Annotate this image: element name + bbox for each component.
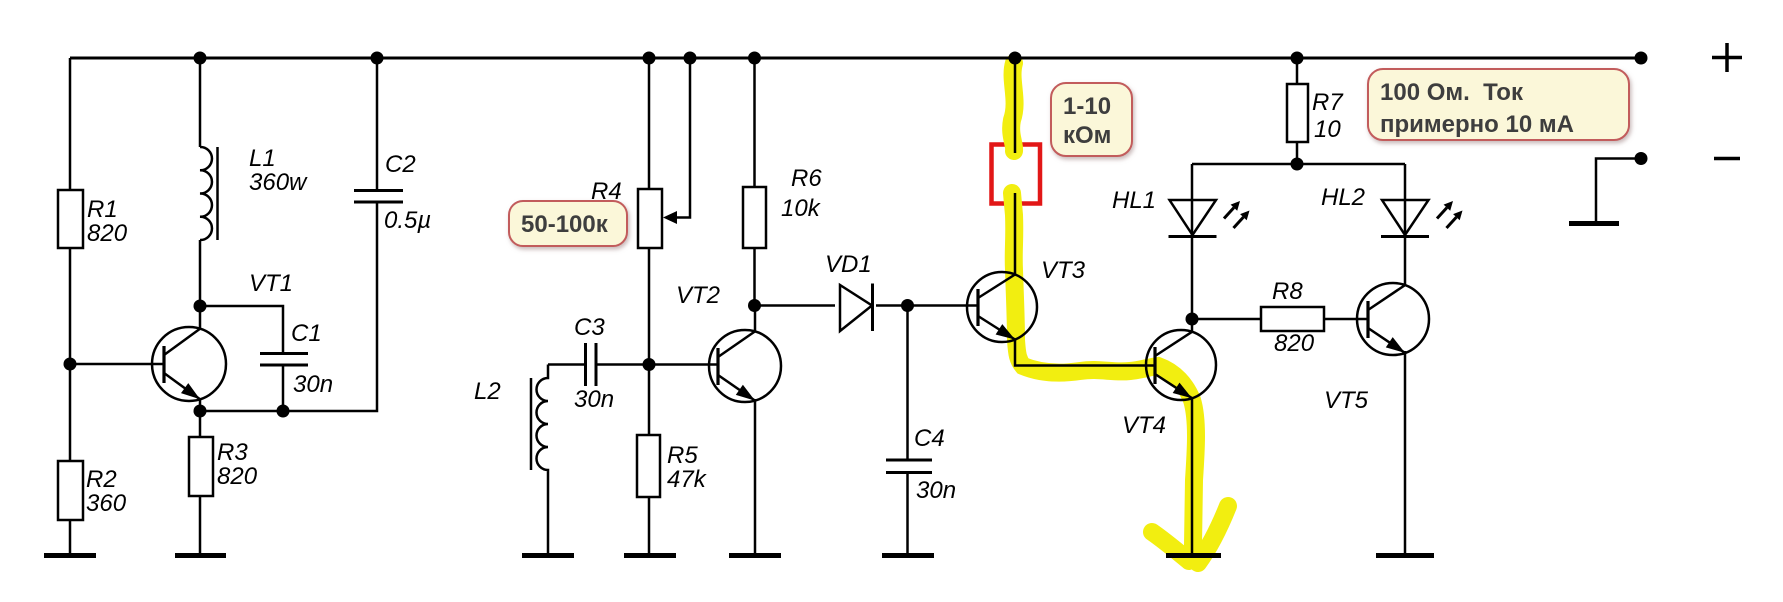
ground under VT4 xyxy=(1166,553,1221,558)
label R2 360 xyxy=(86,466,127,517)
label C3 30n xyxy=(574,314,614,413)
transistor VT3 xyxy=(967,272,1037,342)
node rail VT3 xyxy=(1009,52,1022,65)
label HL1 xyxy=(1112,187,1156,214)
yellow highlighter stroke from red box through VT3 and VT4 to ground arrow xyxy=(1012,193,1228,563)
node base VT1 xyxy=(64,358,77,371)
LED HL1 xyxy=(1169,200,1217,237)
wire HL1 branch xyxy=(1191,164,1194,332)
yellow highlighter stroke from top rail to red box xyxy=(1011,63,1014,151)
callout tag 1-10 kOm xyxy=(1051,83,1132,156)
resistor R2 xyxy=(58,461,83,520)
HL2 light arrows xyxy=(1437,201,1463,228)
wire left branch R1-R2 vertical xyxy=(69,58,72,553)
wire VT3 collector below red box xyxy=(1014,193,1017,275)
capacitor C3 xyxy=(586,343,597,386)
ground under L2 xyxy=(522,553,574,558)
arrowhead R4 wiper xyxy=(663,211,677,224)
svg-text:VD1: VD1 xyxy=(825,251,872,278)
wire C2 bottom to emitter line xyxy=(200,204,377,412)
node R4 bottom junction xyxy=(643,358,656,371)
svg-text:30n: 30n xyxy=(574,386,614,413)
HL1 light arrows xyxy=(1224,201,1250,228)
node VT1 emitter xyxy=(194,405,207,418)
ground negative terminal xyxy=(1569,221,1619,226)
node rail L1 xyxy=(194,52,207,65)
node rail C2 xyxy=(371,52,384,65)
svg-text:10k: 10k xyxy=(781,195,822,222)
wire VD1 cathode to VT3 base xyxy=(876,304,978,307)
label VD1 xyxy=(825,251,872,278)
ground under VT2 xyxy=(729,553,781,558)
label VT4 xyxy=(1122,412,1166,439)
resistor R7 xyxy=(1287,58,1308,164)
wire VT1 emitter to R3 xyxy=(199,399,202,553)
node VT4 collector xyxy=(1186,313,1199,326)
transistor VT2 xyxy=(709,330,781,402)
node rail R6 xyxy=(748,52,761,65)
label L1 360w xyxy=(249,145,308,196)
svg-text:C1: C1 xyxy=(291,320,322,347)
svg-text:C3: C3 xyxy=(574,314,605,341)
plus sign xyxy=(1712,43,1742,72)
label R1 820 xyxy=(87,196,128,247)
inductor L2 xyxy=(531,365,548,554)
transistor VT4 xyxy=(1146,330,1216,400)
callout tag 50-100k xyxy=(509,201,627,246)
node negative terminal xyxy=(1635,152,1648,165)
svg-text:R8: R8 xyxy=(1272,278,1303,305)
wire VD1 anode xyxy=(755,304,836,307)
resistor R3 xyxy=(189,437,213,496)
node rail R4 xyxy=(643,52,656,65)
wire negative terminal to ground xyxy=(1596,159,1641,222)
svg-text:VT2: VT2 xyxy=(676,282,720,309)
transistor VT1 xyxy=(152,327,226,401)
wire VT3 emitter to VT4 base xyxy=(1015,340,1155,366)
ground under C4 xyxy=(882,553,934,558)
resistor R5 xyxy=(637,435,660,497)
resistor R1 xyxy=(58,190,83,248)
wire L1 branch vertical xyxy=(199,58,202,147)
svg-text:HL2: HL2 xyxy=(1321,184,1365,211)
wire top positive rail xyxy=(70,57,1641,60)
label VT2 xyxy=(676,282,720,309)
node R7 bottom xyxy=(1291,158,1304,171)
label R8 820 xyxy=(1272,278,1315,357)
ground under R3 xyxy=(175,553,226,558)
svg-text:C4: C4 xyxy=(914,425,945,452)
svg-text:L2: L2 xyxy=(474,378,501,405)
node positive terminal xyxy=(1635,52,1648,65)
label VT3 xyxy=(1041,257,1086,284)
wire R4-R5 branch vertical xyxy=(648,58,651,553)
label R5 47k xyxy=(667,442,708,493)
capacitor C4 xyxy=(886,306,932,554)
wire VT2 collector xyxy=(754,306,757,332)
svg-text:VT5: VT5 xyxy=(1324,387,1369,414)
wire R6 branch vertical xyxy=(753,58,756,306)
ground under VT5 xyxy=(1376,553,1434,558)
callout tag 100 Om current note xyxy=(1368,69,1629,140)
node VT2 collector junction xyxy=(748,299,761,312)
label HL2 xyxy=(1321,184,1365,211)
svg-text:50-100к: 50-100к xyxy=(521,211,609,238)
svg-text:820: 820 xyxy=(1274,330,1315,357)
ground under R2 xyxy=(44,553,96,558)
node C4 junction xyxy=(901,299,914,312)
svg-text:30n: 30n xyxy=(916,477,956,504)
label C2 0.5u xyxy=(384,151,431,234)
svg-text:VT1: VT1 xyxy=(249,270,293,297)
resistor R6 xyxy=(743,187,766,248)
wire VT5 emitter to ground xyxy=(1404,351,1407,553)
wire VT2 emitter to ground xyxy=(754,399,757,553)
wire LED feed line xyxy=(1192,163,1405,166)
diode VD1 xyxy=(840,284,873,332)
wire C3 to VT2 base xyxy=(598,363,719,366)
node rail R7 xyxy=(1291,52,1304,65)
label VT5 xyxy=(1324,387,1369,414)
label L2 xyxy=(474,378,501,405)
wire VT4 emitter to ground xyxy=(1191,397,1194,553)
wire L1 to VT1 collector xyxy=(199,240,202,330)
svg-text:R710: R710 xyxy=(1312,89,1344,143)
wire VT3 collector vertical xyxy=(1014,58,1017,153)
ground under R5 xyxy=(624,553,676,558)
label C1 30n xyxy=(291,320,333,398)
node rail wiper xyxy=(684,52,697,65)
svg-text:VT4: VT4 xyxy=(1122,412,1166,439)
capacitor C1 xyxy=(260,354,308,412)
svg-text:HL1: HL1 xyxy=(1112,187,1156,214)
label VT1 xyxy=(249,270,293,297)
node C1 bottom xyxy=(277,405,290,418)
red placeholder box (white fill) xyxy=(992,145,1041,204)
label C4 30n xyxy=(914,425,956,504)
svg-text:R6: R6 xyxy=(791,165,822,192)
wire VT1 base xyxy=(70,363,164,366)
transistor VT5 xyxy=(1357,283,1429,355)
capacitor C2 xyxy=(354,58,403,202)
wire L2 to C3 xyxy=(548,363,584,366)
svg-text:VT3: VT3 xyxy=(1041,257,1086,284)
wire R4 wiper xyxy=(676,58,690,218)
label R7 10 xyxy=(1312,89,1344,143)
potentiometer R4 xyxy=(638,189,662,248)
inductor L1 xyxy=(200,147,218,240)
wire R8 xyxy=(1192,318,1368,321)
wire HL2 branch xyxy=(1404,164,1407,286)
node VT1 collector xyxy=(194,300,207,313)
svg-text:30n: 30n xyxy=(293,371,333,398)
resistor R8 xyxy=(1261,307,1324,331)
label R3 820 xyxy=(217,439,258,490)
minus sign xyxy=(1714,157,1740,161)
LED HL2 xyxy=(1381,200,1429,237)
label R4 xyxy=(591,178,622,205)
label R6 10k xyxy=(781,165,822,222)
wire VT1 collector node to C1 xyxy=(200,306,283,352)
